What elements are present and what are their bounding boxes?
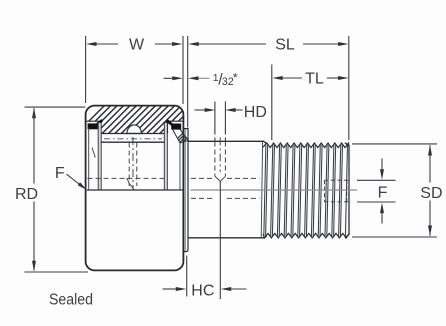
svg-text:TL: TL [305,70,324,87]
svg-text:*: * [233,71,238,85]
svg-text:SL: SL [275,36,295,53]
svg-text:HD: HD [244,104,267,121]
svg-text:Sealed: Sealed [49,292,93,309]
svg-text:SD: SD [420,185,442,202]
svg-text:F: F [378,184,388,201]
svg-text:HC: HC [191,282,214,299]
svg-text:RD: RD [15,186,38,203]
svg-text:F: F [55,165,65,182]
svg-text:W: W [129,36,145,53]
